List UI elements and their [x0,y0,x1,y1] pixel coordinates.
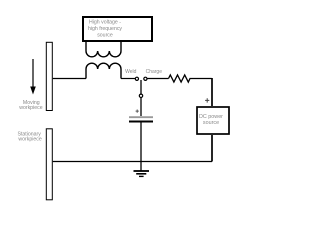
svg-text:High voltage -: High voltage - [89,19,121,25]
svg-text:DC power: DC power [199,114,223,120]
svg-text:source: source [203,120,219,126]
svg-text:workpiece: workpiece [18,137,41,143]
svg-text:Weld: Weld [125,69,137,75]
svg-text:workpiece: workpiece [19,105,42,111]
svg-text:Charge: Charge [146,69,163,75]
svg-text:source: source [97,32,113,38]
svg-text:high frequency: high frequency [88,26,122,32]
